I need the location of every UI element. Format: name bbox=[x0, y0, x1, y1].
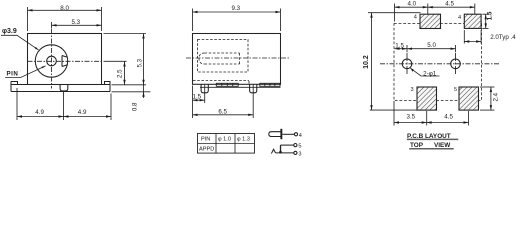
pad 3 bbox=[417, 87, 437, 110]
pin 4 terminal bbox=[294, 133, 297, 136]
pin 5 label bbox=[298, 144, 301, 150]
title underlines bbox=[407, 139, 459, 148]
junction dot bbox=[279, 151, 282, 154]
svg-text:4.0: 4.0 bbox=[408, 1, 417, 8]
svg-text:4: 4 bbox=[458, 15, 461, 21]
hidden cavity rectangle bbox=[198, 40, 249, 73]
flange front view bbox=[11, 82, 110, 92]
label phi 3.9 bbox=[2, 28, 17, 35]
plug bullet bbox=[269, 132, 281, 137]
svg-text:3: 3 bbox=[298, 152, 301, 156]
hidden pin cavity bbox=[199, 53, 240, 64]
svg-text:5.0: 5.0 bbox=[427, 42, 436, 49]
plug collar bbox=[280, 129, 282, 139]
svg-text:10.2: 10.2 bbox=[363, 55, 370, 69]
svg-text:5: 5 bbox=[298, 144, 301, 150]
label 2-phi1 leader bbox=[410, 68, 439, 76]
switch spring contact bbox=[271, 149, 275, 153]
dim 2.5 right bbox=[124, 62, 126, 85]
pin 5 terminal bbox=[294, 144, 297, 147]
dim 10.2 left bbox=[368, 13, 421, 110]
center tab front view bbox=[60, 85, 68, 91]
svg-text:4.5: 4.5 bbox=[445, 1, 454, 8]
vertical centerline bbox=[51, 29, 53, 89]
dim 5.3 right vertical bbox=[104, 34, 147, 99]
svg-text:2.5: 2.5 bbox=[117, 69, 124, 78]
pad cells right bbox=[260, 83, 280, 86]
svg-text:4.9: 4.9 bbox=[78, 109, 87, 116]
hole 2 bbox=[451, 59, 461, 69]
horizontal centerline bbox=[28, 60, 105, 62]
pad 3 label bbox=[411, 87, 414, 93]
svg-text:φ3.9: φ3.9 bbox=[2, 28, 17, 35]
body outline side view bbox=[193, 34, 281, 85]
svg-text:PIN: PIN bbox=[7, 71, 19, 78]
leader phi3.9 with underline bbox=[1, 35, 39, 50]
svg-text:4: 4 bbox=[299, 133, 302, 139]
svg-text:5.3: 5.3 bbox=[136, 58, 143, 67]
leg centerline right bbox=[252, 84, 254, 118]
svg-text:φ 1.3: φ 1.3 bbox=[237, 137, 250, 143]
svg-text:1.5: 1.5 bbox=[395, 43, 404, 50]
pin 3 wire bbox=[276, 152, 294, 154]
svg-text:5: 5 bbox=[454, 87, 457, 93]
leg centerline left bbox=[204, 84, 206, 103]
svg-text:PIN: PIN bbox=[201, 137, 210, 143]
pad 5 bbox=[459, 87, 479, 110]
hole 1 vertical centerline bbox=[406, 53, 408, 74]
dim 4.9 4.9 bottom bbox=[17, 88, 111, 120]
svg-text:4: 4 bbox=[414, 14, 417, 20]
pad 5 label bbox=[454, 87, 457, 93]
pad 4 left label bbox=[414, 14, 417, 20]
svg-text:3: 3 bbox=[411, 87, 414, 93]
extension line right of centerline bbox=[105, 60, 127, 62]
dim 2.4 right bbox=[480, 87, 495, 110]
label PIN bbox=[7, 71, 19, 78]
switch vertical wire bbox=[280, 145, 282, 153]
pin circle bbox=[47, 56, 57, 66]
pin 4 wire bbox=[282, 133, 294, 135]
dim 5.3 horizontal bbox=[52, 22, 102, 29]
pin 5 wire bbox=[281, 144, 294, 146]
svg-text:5.3: 5.3 bbox=[72, 19, 81, 26]
svg-text:6.5: 6.5 bbox=[218, 109, 227, 116]
svg-text:9.3: 9.3 bbox=[232, 5, 241, 12]
holes centerline horizontal bbox=[380, 63, 500, 65]
pad 4 right label bbox=[458, 15, 461, 21]
table bbox=[198, 134, 255, 154]
svg-text:0.8: 0.8 bbox=[131, 102, 138, 111]
svg-text:1.5: 1.5 bbox=[193, 94, 202, 101]
svg-text:4.5: 4.5 bbox=[444, 114, 453, 121]
dim 9.3 top bbox=[193, 9, 281, 32]
hidden base line bbox=[193, 81, 249, 84]
svg-text:φ 1.0: φ 1.0 bbox=[218, 137, 231, 143]
pin 3 terminal bbox=[294, 151, 297, 154]
svg-text:4.9: 4.9 bbox=[35, 109, 44, 116]
pcb outline dashed bbox=[394, 24, 482, 101]
hole 1 bbox=[402, 59, 412, 69]
dim 4.0 4.5 top bbox=[395, 4, 475, 22]
right leg bbox=[250, 84, 257, 93]
svg-text:8.0: 8.0 bbox=[60, 5, 69, 12]
pad 4 right bbox=[464, 14, 481, 28]
barrel circle bbox=[35, 45, 67, 77]
svg-text:2.4: 2.4 bbox=[493, 92, 500, 101]
pin 3 label bbox=[298, 152, 301, 158]
label 2-phi1 bbox=[423, 70, 437, 77]
pin 4 label bbox=[299, 133, 302, 139]
dim 1.5 5.0 middle bbox=[395, 45, 456, 52]
hole 2 vertical centerline bbox=[455, 53, 457, 74]
svg-text:1.5: 1.5 bbox=[487, 11, 494, 20]
pad 4 left bbox=[420, 14, 441, 28]
pad cells left bbox=[216, 83, 238, 86]
dim 0.8 right bbox=[112, 91, 151, 93]
lower bottom edge line bbox=[200, 86, 281, 88]
dim 2.0 typ bbox=[464, 30, 481, 44]
left leg bbox=[201, 84, 208, 93]
leader PIN with underline bbox=[5, 66, 45, 78]
dim 8.0 top bbox=[28, 7, 102, 31]
title PCB LAYOUT bbox=[407, 133, 451, 149]
svg-text:2.0Typ .4: 2.0Typ .4 bbox=[490, 34, 516, 41]
dim 1.5 side bbox=[193, 86, 205, 119]
body outline front view bbox=[28, 34, 102, 85]
dim 6.5 side bbox=[193, 114, 254, 116]
D-cut notch bbox=[62, 56, 67, 67]
svg-text:APPD: APPD bbox=[199, 146, 214, 152]
side view centerline bbox=[186, 57, 289, 59]
svg-text:2-φ1: 2-φ1 bbox=[423, 70, 437, 77]
svg-text:3.5: 3.5 bbox=[407, 114, 416, 121]
dim 3.5 4.5 bottom bbox=[394, 101, 469, 126]
dim 1.5 pad height right bbox=[482, 14, 488, 28]
